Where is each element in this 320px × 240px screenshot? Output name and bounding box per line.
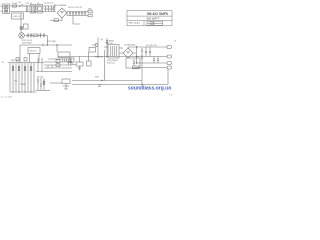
resistor RN4	[30, 67, 32, 71]
ladder rung 3	[44, 67, 72, 69]
wire out rail +V	[128, 47, 167, 48]
svg-text:soundbass.org.ua: soundbass.org.ua	[128, 85, 172, 91]
svg-text:900 WATT: 900 WATT	[146, 17, 159, 21]
capacitor C13	[145, 47, 147, 57]
capacitor C18	[133, 59, 135, 66]
svg-text:BR1 GBU806: BR1 GBU806	[54, 5, 67, 7]
capacitor C19	[78, 66, 80, 71]
bridge rectifier BR1	[57, 8, 67, 18]
svg-text:220V 60W: 220V 60W	[22, 43, 31, 45]
lamp LA1	[19, 33, 25, 39]
svg-text:R16 22K: R16 22K	[95, 57, 103, 59]
capacitor C2	[72, 12, 74, 16]
ladder rung 2	[44, 64, 72, 66]
pins IC hatch	[63, 59, 67, 63]
comb pin 2	[12, 63, 14, 93]
box U4	[89, 48, 96, 53]
transistor Q2	[37, 78, 39, 90]
thermistor NTC1	[20, 26, 23, 30]
comb pin 9	[33, 63, 35, 93]
ladder rung 0	[48, 58, 72, 60]
transistor Q1	[92, 38, 98, 49]
comb rail top	[8, 62, 44, 64]
svg-text:R20..R27: R20..R27	[11, 60, 20, 62]
capacitor C6	[27, 33, 29, 38]
junction dot c	[97, 56, 98, 57]
svg-text:C1 C2 CY1: C1 C2 CY1	[44, 3, 55, 5]
svg-text:TL494: TL494	[20, 84, 27, 86]
svg-text:R15 100: R15 100	[107, 63, 115, 65]
capacitor C5	[81, 12, 83, 16]
junction dots comb	[12, 91, 13, 92]
wire out rail 3	[137, 62, 168, 64]
wire below bridge	[50, 18, 62, 21]
svg-text:D2 SBL4040: D2 SBL4040	[124, 45, 136, 47]
capacitor CX1	[26, 6, 29, 12]
svg-text:03-08: 03-08	[150, 24, 155, 26]
capacitor C14	[149, 47, 151, 57]
resistor R9	[56, 64, 60, 67]
relay box K1	[24, 24, 29, 29]
capacitor C9	[43, 33, 45, 38]
wire mid row	[24, 36, 47, 46]
svg-text:rev 1.0 2003: rev 1.0 2003	[1, 97, 13, 99]
resistor R6	[16, 58, 19, 61]
wire DC+ rail	[67, 12, 88, 14]
wire drop b	[38, 54, 40, 63]
capacitor C21	[68, 59, 70, 65]
wire drop a	[29, 54, 31, 63]
wire drop c	[56, 45, 58, 52]
resistor R8	[56, 60, 60, 63]
AC input connector J1	[3, 4, 10, 14]
wire t1 out1	[119, 47, 123, 49]
wire drop left	[19, 45, 21, 63]
capacitor C12	[141, 54, 143, 60]
label box EMI filter	[12, 13, 24, 19]
junction dot d	[136, 46, 137, 47]
wire ground rail mid	[58, 56, 139, 58]
capacitor C8	[39, 33, 41, 38]
resistor R11	[98, 85, 101, 87]
wire DC- rail	[67, 13, 88, 16]
resistor R2	[54, 19, 59, 22]
terminal -V	[167, 62, 172, 65]
wire out mid	[133, 46, 137, 63]
junction dot e	[141, 84, 142, 85]
capacitor CY2	[50, 6, 52, 12]
resistor R4	[42, 44, 44, 47]
comb pin 8	[30, 63, 32, 93]
resistor RN1	[12, 67, 14, 71]
resistor R13	[48, 65, 52, 68]
comb pin 1	[9, 63, 11, 93]
junction dot b	[47, 44, 48, 45]
wire q1 emitter	[97, 48, 99, 57]
svg-text:L3 C30 C31: L3 C30 C31	[146, 45, 158, 47]
capacitor C22	[70, 59, 72, 65]
svg-text:VER. 02-A.1: VER. 02-A.1	[129, 22, 141, 25]
comb rail bottom	[10, 91, 36, 93]
capacitor CX2	[44, 6, 46, 12]
wire L top rail	[10, 5, 57, 7]
wire fb vertical	[141, 58, 143, 85]
switch S1	[19, 4, 25, 6]
capacitor CY1	[47, 6, 49, 12]
box U6	[76, 62, 83, 66]
wire earth drop	[20, 13, 22, 33]
resistor RN3	[24, 67, 26, 71]
wire aux rail	[134, 67, 167, 69]
capacitor C3	[75, 12, 77, 16]
wire bus 2	[72, 84, 168, 86]
wire out rail 2	[137, 56, 168, 58]
wire aux drop	[88, 52, 90, 61]
wire rail mid	[20, 44, 72, 46]
opto U5	[62, 79, 70, 89]
wire rail bottom left	[36, 90, 50, 92]
resistor R1	[53, 6, 55, 12]
capacitor C15	[153, 57, 155, 64]
wire AC stub	[1, 6, 3, 11]
diode bridge D2	[123, 48, 133, 58]
junction dot a	[26, 5, 27, 6]
wire stub	[73, 16, 80, 25]
capacitor C5b	[84, 12, 86, 16]
resistor R10	[43, 78, 45, 90]
wire link	[50, 82, 62, 84]
svg-text:ERL-39: ERL-39	[106, 43, 114, 45]
comb pin 5	[21, 63, 23, 93]
svg-text:R12 330K: R12 330K	[47, 41, 57, 43]
capacitor C1	[69, 12, 71, 16]
capacitor C16	[157, 57, 159, 64]
terminal GND	[167, 55, 172, 58]
wire N bottom rail	[10, 11, 57, 13]
wire t1 in	[104, 46, 108, 48]
ladder rung 4	[36, 71, 72, 73]
capacitor C11	[141, 48, 143, 54]
terminal TB2	[88, 14, 92, 17]
wire drop d	[37, 58, 39, 72]
box U3	[58, 52, 70, 58]
capacitor C10	[106, 38, 108, 57]
comb pin 3	[15, 63, 17, 93]
box C17 block	[126, 58, 140, 68]
transformer T1	[108, 45, 119, 59]
terminal +V	[167, 46, 172, 49]
inductor L1 common-mode choke	[30, 5, 36, 14]
svg-text:1/10: 1/10	[169, 95, 173, 97]
wire fb right	[167, 69, 169, 85]
title block frame	[127, 11, 172, 26]
svg-text:C8 C9 C10 C11: C8 C9 C10 C11	[68, 7, 83, 9]
resistor RN2	[18, 67, 20, 71]
comb pin 6	[24, 63, 26, 93]
capacitor C7	[30, 33, 32, 38]
svg-text:KA7500: KA7500	[29, 50, 37, 53]
capacitor C4	[78, 12, 80, 16]
wire cluster link	[72, 57, 80, 65]
svg-text:F1 5A: F1 5A	[12, 2, 18, 5]
resistor R3	[33, 34, 38, 37]
resistor R5	[133, 66, 140, 69]
box RV1	[87, 61, 92, 66]
box U2 driver	[28, 48, 40, 54]
diode D3	[70, 58, 74, 62]
wire drop e	[41, 58, 43, 72]
svg-text:Q2 Q3: Q2 Q3	[37, 77, 44, 79]
ladder rung 1	[44, 61, 72, 63]
wire bus 1	[72, 80, 142, 82]
switch dot	[18, 5, 19, 6]
comb pin 4	[18, 63, 20, 93]
terminal TB1	[88, 10, 92, 13]
transistor Q3	[40, 78, 42, 90]
svg-text:GB 4X2 SMPS: GB 4X2 SMPS	[147, 12, 168, 16]
comb pin 7	[27, 63, 29, 93]
resistor R7	[24, 58, 27, 61]
wire vcc drop	[104, 50, 106, 81]
fuse F1	[13, 5, 17, 7]
inductor L2	[37, 5, 43, 14]
terminal aux	[167, 66, 172, 69]
wire t1 out2	[119, 52, 123, 54]
